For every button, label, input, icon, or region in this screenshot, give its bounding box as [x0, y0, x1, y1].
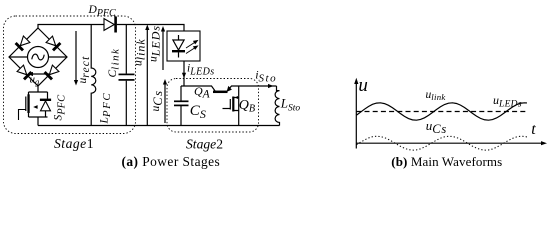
svg-text:ug: ug — [30, 74, 40, 87]
svg-text:Stage2: Stage2 — [186, 136, 223, 151]
svg-text:(b) Main Waveforms: (b) Main Waveforms — [391, 154, 502, 169]
svg-text:Stage1: Stage1 — [54, 136, 94, 151]
svg-text:u: u — [358, 75, 368, 96]
svg-text:(a) Power Stages: (a) Power Stages — [122, 154, 221, 169]
svg-text:uLEDs: uLEDs — [148, 25, 163, 62]
svg-text:t: t — [531, 121, 536, 138]
